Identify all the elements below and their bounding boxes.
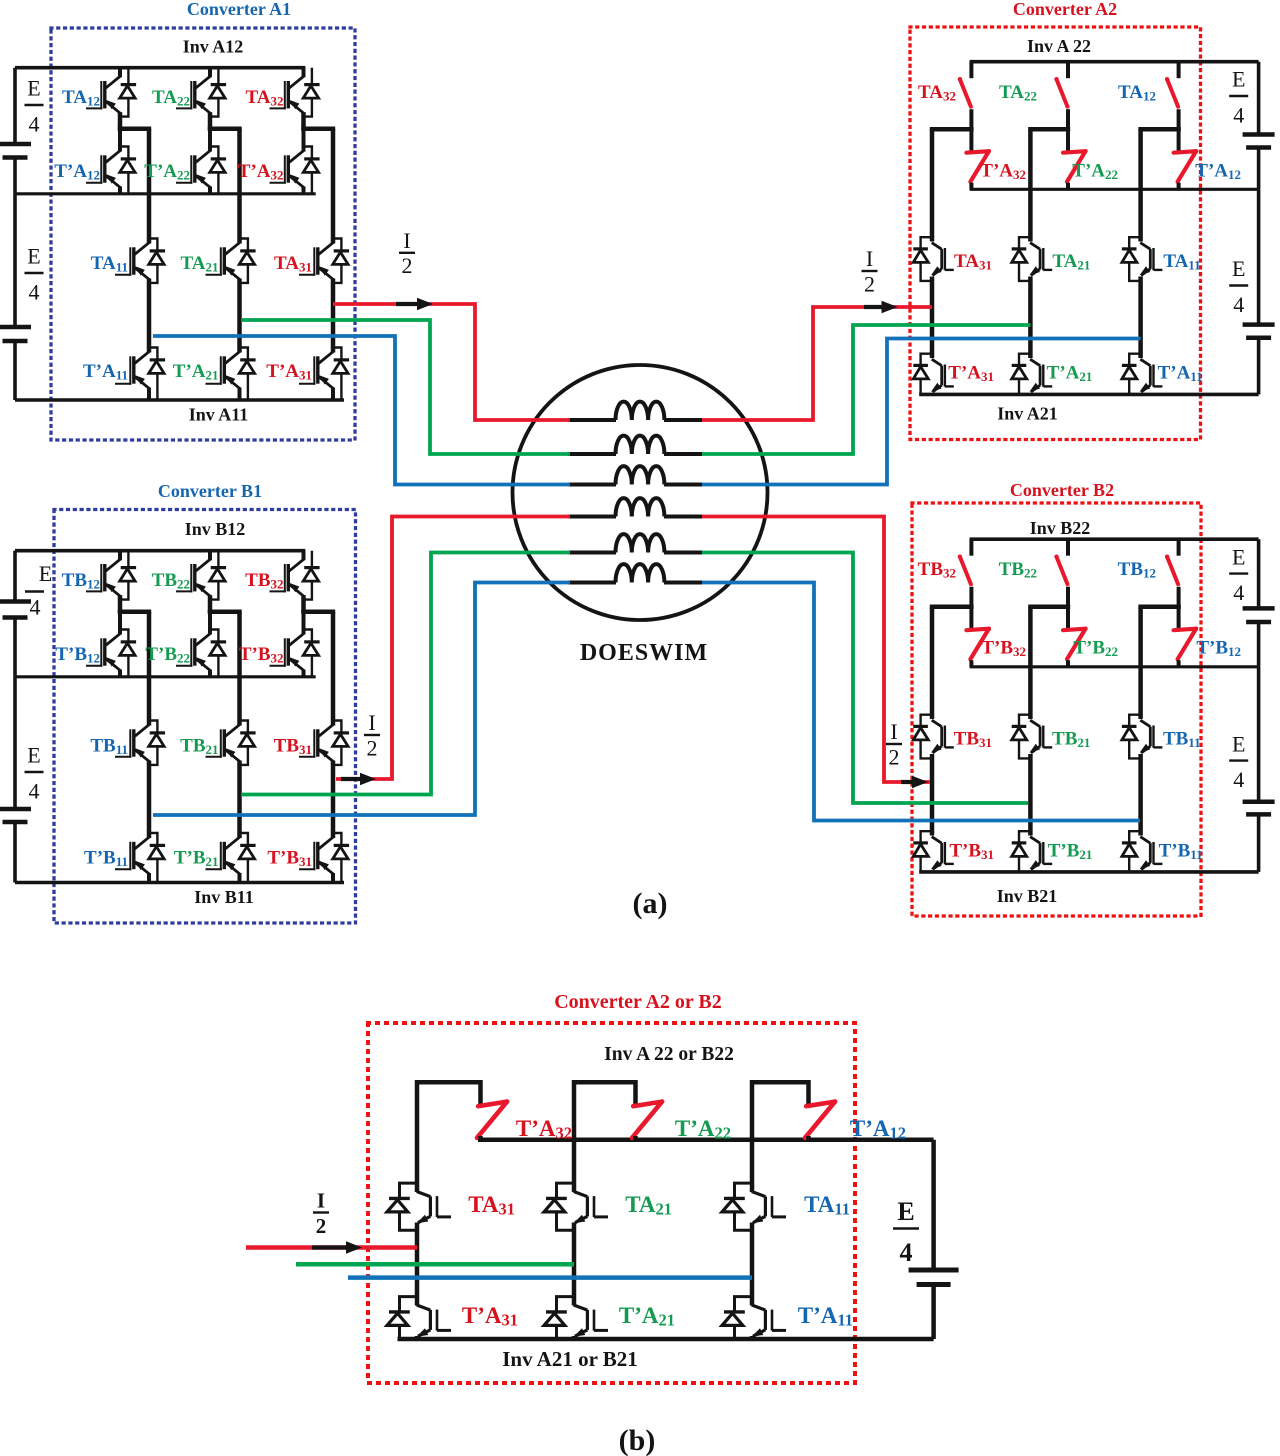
wire [301,595,306,614]
current arrow I/2 (b) [312,1245,348,1249]
transistor T'A31 (b) [436,1310,439,1331]
wire emitter to bottom rail (b) [750,1336,755,1339]
transistor TA22 [176,107,192,109]
wire switch to midpoint [1066,109,1070,152]
transistor TA31 [944,248,946,270]
wire to switch TA32 [969,62,973,78]
current arrow I/2 at A1 output [396,302,419,306]
wire [118,112,123,131]
wire emitter T'B22 to mid rail [208,670,212,677]
wire to switch TA12 [1177,62,1181,78]
inductor coil 1 [616,402,665,420]
wire leg 1 (input node) [930,277,935,359]
wire dc link left B1 upper [13,551,17,600]
inductor coil 2 [616,436,665,454]
wire emitter T'B21 to bottom rail [238,873,242,883]
dotted box Converter B2 [912,503,1201,916]
wire switch to midpoint [1177,109,1181,152]
wire top rail Inv B12 [15,549,305,553]
wire leg 1 midpoint (output node) [147,761,152,839]
transistor TB11 [1152,726,1154,748]
wire half-bridge midpoint leg 3 [301,126,335,131]
wire switch T'B12 to rail [1177,660,1181,667]
wire switch to rail (b) [806,1136,811,1140]
inductor coil 5 [616,534,665,552]
wire emitter T'A21 to bottom rail [1028,393,1032,394]
transistor T'B12 [86,665,102,667]
wire leg 3 input node (b) [750,1223,755,1306]
wire blue A1 output phase 1 [153,336,570,485]
wire emitter T'B21 to bottom rail [1028,871,1032,872]
wire collector TA32 [302,68,306,78]
wire [13,824,17,883]
transistor TB12 [86,590,102,592]
wire collector hook leg 1 (b) [417,1082,481,1192]
svg-text:2: 2 [402,253,413,278]
svg-text:Inv B22: Inv B22 [1030,518,1091,538]
svg-text:E: E [897,1197,914,1226]
transistor T'B21 [1042,842,1044,864]
wire green B1 output phase 2 [241,553,570,795]
wire half-bridge midpoint leg 2 [208,126,242,131]
machine winding 1 [568,418,616,422]
wire red A2 input [702,307,932,420]
transistor TA21 [206,274,222,276]
wire collector TA22 [208,68,212,78]
wire emitter T'B12 to mid rail [118,670,122,677]
wire green input phase 2 (b) [296,1262,574,1267]
wire leg 3 (input node) [1138,277,1143,359]
transistor TB22 [176,590,192,592]
wire leg 3 midpoint (output node) [331,279,336,353]
wire bottom rail Inv B11 [15,881,344,885]
wire [208,595,213,614]
svg-text:Converter A2 or B2: Converter A2 or B2 [554,991,722,1013]
wire leg 3 (input node) [1138,754,1143,836]
svg-text:E: E [1232,256,1245,281]
wire blue A2 input [702,339,1141,485]
wire leg 1 (input node) [930,754,935,836]
wire top rail Inv A12 [15,66,305,70]
wire to capacitor E/4 (b) [931,1140,936,1268]
wire bottom rail Inv A11 [15,398,344,402]
svg-text:E: E [39,561,52,586]
wire collector T'A32 [302,129,306,152]
svg-text:DOESWIM: DOESWIM [580,640,708,666]
wire to switch TA22 [1066,62,1070,78]
wire emitter T'B11 to bottom rail [1139,871,1143,872]
wire emitter T'B31 to bottom rail [930,871,934,872]
svg-text:I: I [890,719,897,744]
wire emitter T'A32 to mid rail [302,187,306,194]
switch T'A12 (red) [1174,151,1197,182]
svg-text:4: 4 [1233,767,1244,792]
svg-text:E: E [27,76,40,101]
switch T'B32 (red) [966,629,989,660]
current arrow I/2 at B1 output [341,777,362,781]
wire collector T'B12 [118,612,122,635]
wire emitter to bottom rail (b) [572,1336,577,1339]
switch TA22 (red blade) [1057,79,1068,107]
capacitor E/4 upper B1 [0,599,31,604]
machine winding 5 [568,551,616,555]
transistor T'B11 [115,868,131,870]
transistor T'A11 [1152,365,1154,387]
svg-text:I: I [403,228,410,253]
switch T'A32 (red) [966,151,989,182]
transistor T'B32 [270,665,286,667]
wire half-bridge midpoint leg 3 [1138,604,1180,609]
transistor TB11 [115,756,131,758]
wire [208,112,213,131]
wire [13,620,17,677]
wire [1257,816,1261,872]
svg-text:E: E [27,244,40,269]
wire [301,112,306,131]
wire bottom rail Inv A22 [970,188,1259,191]
current arrow I/2 at A2 input [864,305,884,309]
wire midpoint down to lower leg 1 [930,129,935,241]
wire emitter T'A31 to bottom rail [331,388,335,401]
wire dc link right B2 upper [1257,539,1261,606]
wire collector TB12 [118,551,122,561]
switch TB22 (red blade) [1057,557,1068,585]
wire switch to midpoint [1066,587,1070,630]
wire half-bridge midpoint leg 3 [1138,127,1180,132]
capacitor E/4 lower B2 [1243,800,1275,805]
wire dc link left B1 lower [13,677,17,807]
wire green B2 input [702,553,1028,804]
svg-text:I: I [368,710,375,735]
transistor T'B31 [944,842,946,864]
wire collector hook leg 2 (b) [574,1082,636,1192]
wire red input phase 3 (b) [246,1245,417,1250]
transistor TB21 [1042,726,1044,748]
wire leg 1 input node (b) [415,1223,420,1306]
svg-text:I: I [866,246,873,271]
transistor T'A21 [206,383,222,385]
wire half-bridge midpoint leg 1 [930,127,974,132]
machine winding 2 [568,452,616,456]
wire leg 2 (input node) [1028,754,1033,836]
wire dc link right A2 lower [1257,189,1261,322]
switch T'B22 (red) [1063,629,1086,660]
switch T'A12 (red, b) [805,1102,835,1138]
wire half-bridge midpoint leg 3 [301,609,335,614]
capacitor E/4 upper A2 [1243,132,1275,137]
svg-text:Inv A12: Inv A12 [183,37,244,57]
wire switch to rail (b) [633,1136,638,1140]
wire red B2 input [702,517,930,783]
svg-text:2: 2 [367,735,378,760]
transistor T'B21 [206,868,222,870]
wire midpoint down to lower inverter leg 1 [147,129,152,244]
transistor TA12 [86,107,102,109]
wire switch T'B22 to rail [1066,660,1070,667]
wire collector T'B22 [208,612,212,635]
wire emitter T'A11 to bottom rail [1139,393,1143,394]
wire collector TA12 [118,68,122,78]
transistor T'A11 [115,383,131,385]
wire switch to rail (b) [478,1136,483,1140]
transistor TA21 (b) [593,1196,596,1217]
machine winding 6 [568,581,616,585]
wire collector T'A12 [118,129,122,152]
wire [1257,340,1261,395]
inductor coil 6 [616,564,665,582]
wire switch to midpoint [969,109,973,152]
transistor T'A32 [270,182,286,184]
transistor T'B11 [1152,842,1154,864]
wire top rail Inv A22 [970,60,1259,64]
svg-text:E: E [1232,544,1245,569]
wire switch to midpoint [1177,587,1181,630]
svg-text:E: E [1232,67,1245,92]
switch T'A32 (red, b) [477,1102,507,1138]
transistor TA21 [1042,248,1044,270]
capacitor E/4 upper A1 [0,142,31,147]
wire dc link left A1 upper [13,68,17,142]
wire midpoint down to lower leg 2 [1028,607,1033,719]
wire bottom rail Inv A21 [919,393,1258,397]
wire top rail Inv B22 [970,537,1259,541]
wire emitter T'A11 to bottom rail [147,388,151,401]
switch T'A22 (red, b) [632,1102,662,1138]
svg-text:(a): (a) [633,887,668,920]
wire switch T'A22 to rail [1066,183,1070,190]
wire collector TB32 [302,551,306,561]
inductor coil 4 [616,498,665,516]
svg-text:Inv B11: Inv B11 [194,887,254,907]
wire midpoint down to lower inverter leg 2 [237,129,242,244]
transistor T'B31 [299,868,315,870]
wire midpoint down to lower inverter leg 1 [147,612,152,726]
wire switch T'A32 to rail [969,183,973,190]
switch TB12 (red blade) [1167,557,1178,585]
wire [13,160,17,194]
wire blue input phase 1 (b) [348,1275,752,1280]
transistor TA31 [299,274,315,276]
wire dc link left A1 lower [13,194,17,325]
wire rail below switches (b) [478,1137,934,1142]
switch TB32 (red blade) [960,557,971,585]
capacitor E/4 upper B2 [1243,606,1275,611]
transistor TA11 [115,274,131,276]
svg-text:E: E [27,743,40,768]
wire leg 3 midpoint (output node) [331,761,336,839]
wire collector hook leg 3 (b) [752,1082,809,1192]
wire midpoint down to lower inverter leg 3 [331,129,336,244]
wire bottom rail Inv B22 [970,665,1259,668]
wire switch to midpoint [969,587,973,630]
capacitor E/4 lower B1 [0,807,31,812]
transistor TA11 [1152,248,1154,270]
dotted box Converter A2 [910,27,1201,440]
wire [13,343,17,400]
svg-text:Inv A11: Inv A11 [189,405,249,425]
wire dc link right B2 lower [1257,667,1261,800]
transistor T'A21 (b) [593,1310,596,1331]
svg-text:E: E [1232,731,1245,756]
wire midpoint down to lower leg 1 [930,607,935,719]
wire half-bridge midpoint leg 2 [208,609,242,614]
svg-text:4: 4 [1233,292,1244,317]
wire green A2 input [702,325,1030,454]
wire bottom rail Inv A21 or B21 (b) [398,1337,934,1342]
switch T'B12 (red) [1174,629,1197,660]
svg-text:Inv A21 or B21: Inv A21 or B21 [502,1347,638,1371]
wire leg 2 (input node) [1028,277,1033,359]
wire to switch TB22 [1066,539,1070,556]
wire leg 2 midpoint (output node) [237,279,242,353]
svg-text:4: 4 [29,280,40,305]
wire [1257,150,1261,190]
dotted box Converter A1 [51,28,355,440]
transistor TA11 (b) [771,1196,774,1217]
svg-text:4: 4 [29,112,40,137]
wire capacitor to bottom rail (b) [931,1287,936,1340]
wire half-bridge midpoint leg 1 [118,126,151,131]
wire midpoint down to lower inverter leg 3 [331,612,336,726]
capacitor E/4 lower A1 [0,325,31,330]
wire green A1 output phase 2 [241,320,570,454]
wire midpoint down to lower leg 2 [1028,129,1033,241]
capacitor E/4 lower A2 [1243,322,1275,327]
transistor T'A31 [299,383,315,385]
wire switch T'A12 to rail [1177,183,1181,190]
wire emitter T'A22 to mid rail [208,187,212,194]
svg-text:Converter A1: Converter A1 [187,0,291,19]
wire half-bridge midpoint leg 1 [118,609,151,614]
machine winding 3 [568,483,616,487]
svg-text:4: 4 [29,779,40,804]
wire emitter to bottom rail (b) [415,1336,420,1339]
svg-text:2: 2 [889,744,900,769]
wire collector T'A22 [208,129,212,152]
wire blue B2 input [702,583,1140,821]
transistor T'A12 [86,182,102,184]
wire red A1 output phase 3 [333,304,570,420]
inductor coil 3 [616,466,665,484]
svg-text:4: 4 [1233,103,1244,128]
wire midpoint down to lower inverter leg 2 [237,612,242,726]
wire emitter T'A12 to mid rail [118,187,122,194]
wire half-bridge midpoint leg 2 [1028,604,1070,609]
wire emitter T'B32 to mid rail [302,670,306,677]
wire leg 2 midpoint (output node) [237,761,242,839]
svg-text:Inv B12: Inv B12 [185,519,246,539]
dotted box Converter B1 [54,510,356,924]
wire half-bridge midpoint leg 1 [930,604,974,609]
svg-text:Converter B2: Converter B2 [1010,480,1114,500]
wire emitter T'A31 to bottom rail [930,393,934,394]
wire midpoint down to lower leg 3 [1138,129,1143,241]
wire emitter T'B11 to bottom rail [147,873,151,883]
wire leg 1 midpoint (output node) [147,279,152,353]
svg-text:Converter A2: Converter A2 [1013,0,1117,19]
svg-text:2: 2 [864,271,875,296]
wire bottom rail Inv B21 [919,870,1258,874]
svg-text:4: 4 [900,1238,913,1267]
wire midpoint down to lower leg 3 [1138,607,1143,719]
transistor TA32 [270,107,286,109]
machine winding 4 [568,515,616,519]
switch TA32 (red blade) [960,79,971,107]
svg-text:Inv A 22: Inv A 22 [1027,36,1091,56]
wire emitter T'A21 to bottom rail [238,388,242,401]
wire mid rail Inv B12 bottom [15,675,316,678]
wire collector TB22 [208,551,212,561]
transistor T'A11 (b) [771,1310,774,1331]
transistor TA31 (b) [436,1196,439,1217]
current arrow I/2 at B2 input [901,780,914,784]
wire to switch TB12 [1177,539,1181,556]
transistor T'A31 [944,365,946,387]
wire blue B1 output phase 1 [153,583,570,816]
transistor T'A21 [1042,365,1044,387]
switch T'A22 (red) [1063,151,1086,182]
wire red B1 output phase 3 [336,517,570,780]
wire collector T'B32 [302,612,306,635]
wire [1257,624,1261,667]
transistor T'B22 [176,665,192,667]
capacitor E/4 (b) [909,1268,959,1273]
svg-text:I: I [317,1189,325,1213]
wire to switch TB32 [969,539,973,556]
svg-text:4: 4 [30,595,41,620]
wire [118,595,123,614]
wire switch T'B32 to rail [969,660,973,667]
transistor TB32 [270,590,286,592]
svg-text:2: 2 [316,1214,327,1238]
svg-text:Inv A 22 or B22: Inv A 22 or B22 [604,1044,734,1065]
wire half-bridge midpoint leg 2 [1028,127,1070,132]
switch TA12 (red blade) [1167,79,1178,107]
wire emitter T'B31 to bottom rail [331,873,335,883]
machine stator circle [513,365,768,620]
svg-text:Inv B21: Inv B21 [997,886,1058,906]
svg-text:Inv A21: Inv A21 [997,404,1058,424]
transistor TB21 [206,756,222,758]
wire leg 2 input node (b) [572,1223,577,1306]
wire mid rail Inv A12 bottom [15,192,316,195]
svg-text:4: 4 [1233,580,1244,605]
dotted box Converter A2 or B2 [368,1023,855,1383]
transistor TB31 [299,756,315,758]
wire dc link right A2 upper [1257,62,1261,133]
transistor T'A22 [176,182,192,184]
transistor TB31 [944,726,946,748]
svg-text:Converter B1: Converter B1 [158,481,262,501]
svg-text:(b): (b) [619,1424,656,1456]
